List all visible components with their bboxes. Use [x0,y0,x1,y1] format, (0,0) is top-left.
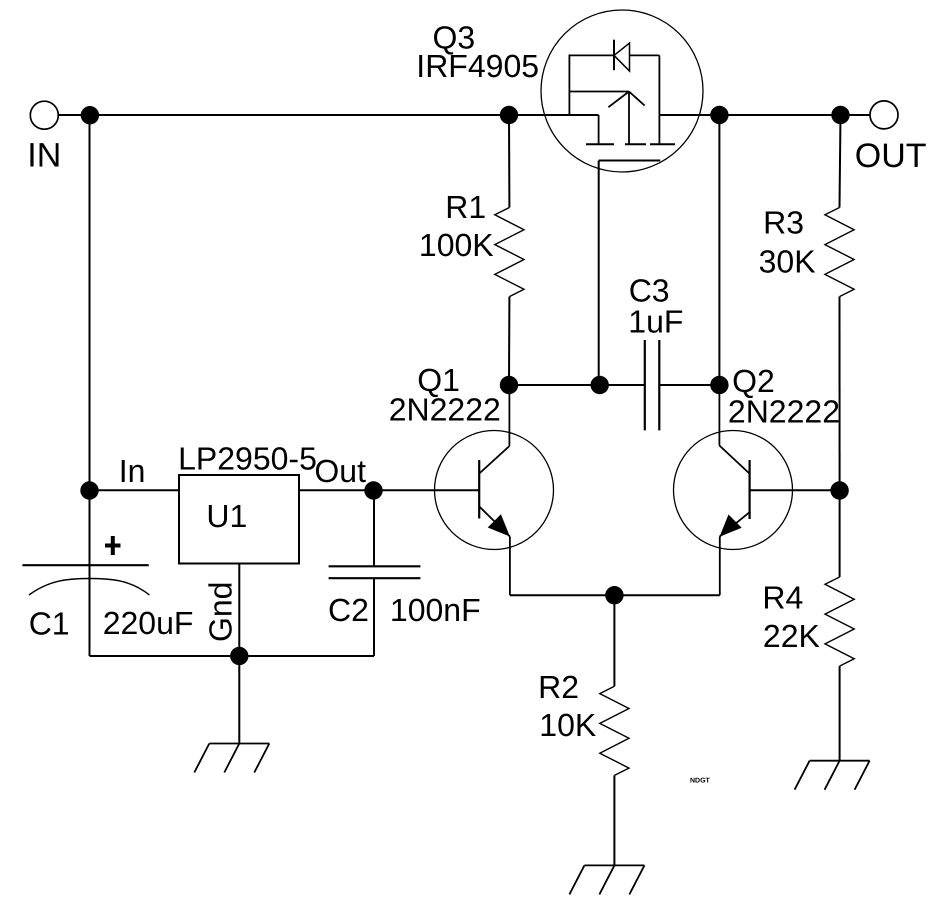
ground symbol below R4 [795,761,870,790]
junction dot Q3 drain node [710,106,728,124]
svg-text:LP2950-5: LP2950-5 [178,441,317,477]
svg-text:100K: 100K [419,227,494,263]
wire Q3 gate down to node row [598,161,600,386]
svg-text:100nF: 100nF [390,592,481,628]
svg-text:1uF: 1uF [628,303,683,339]
wire Q2 base lead to R3/R4 node [750,489,840,491]
svg-text:C2: C2 [328,592,369,628]
ground symbol below R2 [569,865,644,894]
wire In lead to U1 [90,489,180,491]
svg-text:IRF4905: IRF4905 [416,48,539,84]
svg-text:NDGT: NDGT [690,778,711,785]
wire R2 top lead [613,595,615,686]
svg-text:10K: 10K [539,707,596,743]
svg-text:Gnd: Gnd [203,582,239,642]
wire C2 top lead [373,490,375,566]
wire OUT terminal stub [841,114,870,116]
wire top rail right (Q3 drain to OUT) [659,114,841,116]
wire U1 Gnd pin down to ground [238,564,240,744]
wire R2 bottom lead [613,775,615,865]
svg-text:IN: IN [27,136,61,174]
junction dot ground rail [230,647,248,665]
svg-text:R3: R3 [763,204,804,240]
svg-text:220uF: 220uF [103,605,194,641]
regulator U1 box [179,475,299,564]
wire left column IN node down through C1 to ground rail [89,115,91,656]
transistor Q3 IRF4905 P-MOSFET [541,10,703,172]
resistor R3 [825,208,854,297]
wire R3 bottom lead to Q2 base node [839,297,841,491]
junction dot Q2 base node [830,481,848,499]
svg-text:22K: 22K [763,618,820,654]
wire C2 bottom lead [373,578,375,656]
terminal OUT (open circle) [870,101,898,129]
wire R4 top lead [839,491,841,578]
svg-text:R4: R4 [762,580,803,616]
svg-text:2N2222: 2N2222 [728,394,840,430]
wire Q3 drain node down to Q2 collector node [718,115,720,385]
junction dot U1 Out node [364,481,382,499]
svg-text:Out: Out [314,453,366,489]
wire node row (C3 right plate to Q2 collector node) [659,384,719,386]
wire emitter rail [510,594,720,596]
wire R1 top lead [508,115,510,208]
junction dot OUT node [831,106,849,124]
wire R3 top lead [840,115,841,208]
junction dot node row right [710,376,728,394]
resistor R4 [825,577,854,666]
wire R4 bottom lead [839,666,841,761]
wire IN terminal stub [58,114,90,116]
terminal IN (open circle) [30,101,58,129]
capacitor C3 [645,340,660,430]
svg-text:30K: 30K [759,244,816,280]
wire top rail left (IN to Q3 source) [90,114,599,116]
junction dot IN node [81,106,99,124]
junction dot R1 top [500,106,518,124]
wire node row (R1 bottom to C3 left plate) [509,384,645,386]
svg-text:U1: U1 [206,498,247,534]
svg-text:R2: R2 [538,669,579,705]
junction dot U1 In node [80,481,98,499]
transistor Q2 2N2222 [674,385,793,595]
capacitor C1 (polarized) [22,565,149,595]
resistor R2 [600,686,629,775]
svg-text:OUT: OUT [855,137,927,175]
junction dot node row left [500,376,518,394]
wire U1 Out to Q1 base [299,489,479,491]
junction dot gate node [591,376,609,394]
wire R1 bottom lead [508,297,510,385]
capacitor C2 [329,566,421,578]
wire ground rail (C1/U1/C2 bottoms) [90,655,375,657]
svg-text:R1: R1 [445,189,486,225]
svg-text:C1: C1 [29,605,70,641]
junction dot emitter rail [605,586,623,604]
resistor R1 [495,208,524,297]
transistor Q1 2N2222 [435,385,554,595]
svg-text:In: In [119,453,146,489]
polarity + mark for C1 [105,536,121,555]
svg-text:2N2222: 2N2222 [389,392,501,428]
ground symbol below U1 [194,744,269,773]
